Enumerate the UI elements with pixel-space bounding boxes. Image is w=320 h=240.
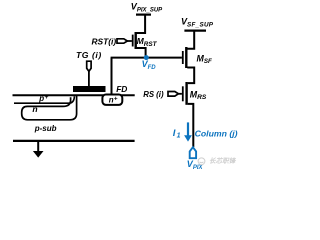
svg-text:FD: FD bbox=[116, 84, 127, 94]
wire V_SF_SUP to M_SF drain bbox=[187, 31, 194, 49]
wire M_SF source to M_RS drain bbox=[187, 68, 194, 84]
wire pin to M_RST gate bbox=[127, 40, 132, 42]
transistor M_RS gate bar bbox=[182, 86, 184, 101]
svg-text:VFD: VFD bbox=[142, 59, 157, 71]
wire M_RS source to column output bbox=[188, 104, 194, 147]
svg-text:n: n bbox=[32, 104, 37, 114]
svg-text:MRST: MRST bbox=[137, 36, 158, 48]
transistor M_RST gate bar bbox=[132, 35, 134, 47]
svg-text:RST(i): RST(i) bbox=[92, 36, 117, 46]
svg-text:MRS: MRS bbox=[190, 89, 207, 101]
silicon surface line bbox=[13, 94, 135, 96]
svg-text:VSF_SUP: VSF_SUP bbox=[181, 16, 214, 28]
substrate line bbox=[13, 140, 135, 142]
transistor M_RS channel bar bbox=[185, 82, 187, 105]
wire TG pin to gate bbox=[88, 71, 90, 86]
watermark logo bbox=[198, 158, 205, 165]
svg-text:RS (i): RS (i) bbox=[143, 90, 164, 99]
svg-text:TG (i): TG (i) bbox=[76, 50, 102, 60]
transistor M_RST channel bar bbox=[134, 32, 136, 49]
ground arrowhead bbox=[33, 151, 44, 158]
input pin RST(i) bbox=[117, 39, 127, 43]
svg-text:p+: p+ bbox=[38, 94, 48, 103]
wire V_PIX_SUP to M_RST drain bbox=[136, 15, 145, 33]
input pin TG(i) bbox=[87, 61, 91, 71]
current arrowhead bbox=[184, 135, 192, 141]
svg-text:I1: I1 bbox=[173, 128, 181, 140]
svg-text:Column (j): Column (j) bbox=[195, 128, 238, 138]
wire node V_FD horizontal bbox=[111, 57, 182, 59]
svg-text:VPIX_SUP: VPIX_SUP bbox=[131, 1, 163, 13]
transfer gate TG electrode bbox=[73, 86, 106, 92]
current arrow shaft bbox=[187, 122, 189, 136]
power rail V_PIX_SUP bar bbox=[136, 14, 151, 16]
wire V_FD down to FD diffusion bbox=[111, 58, 113, 95]
node V_FD junction dot bbox=[144, 55, 149, 60]
svg-text:p-sub: p-sub bbox=[34, 124, 57, 133]
power rail V_SF_SUP bar bbox=[184, 30, 206, 32]
ground stem bbox=[37, 141, 39, 151]
p+ pinning layer line bbox=[14, 96, 74, 103]
n+ floating diffusion box bbox=[102, 95, 122, 105]
transistor M_SF gate bar bbox=[182, 51, 184, 64]
input pin RS(i) bbox=[168, 92, 178, 97]
svg-text:长芯职锋: 长芯职锋 bbox=[209, 157, 237, 165]
n well region outline bbox=[22, 96, 77, 120]
transistor M_SF channel bar bbox=[185, 47, 187, 68]
svg-text:MSF: MSF bbox=[197, 53, 212, 65]
wire M_RST source to node V_FD bbox=[136, 48, 146, 58]
output pin V_PIX bbox=[190, 147, 196, 158]
wire pin to M_RS gate bbox=[178, 93, 182, 95]
